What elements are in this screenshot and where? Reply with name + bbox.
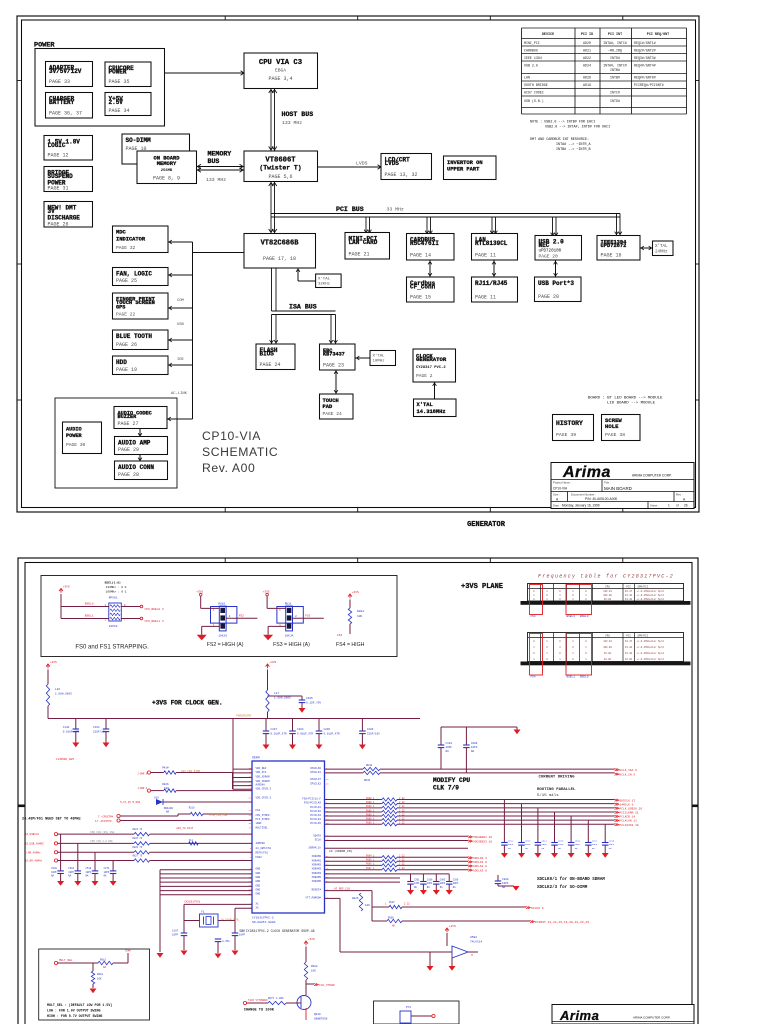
svg-text:FS3: FS3 [305,615,310,618]
svg-text:MDC: MDC [116,230,126,236]
svg-text:5/15 mils: 5/15 mils [537,793,559,798]
svg-text:P890 1: P890 1 [366,809,375,812]
svg-text:+3VS: +3VS [308,938,315,941]
svg-text:PAGE 2: PAGE 2 [416,373,433,379]
svg-text:VT8606T: VT8606T [265,157,296,165]
svg-text:33.40: 33.40 [625,646,633,649]
svg-text:22UF/16V: 22UF/16V [93,730,106,734]
svg-text:C818: C818 [609,840,615,843]
svg-text:10PF: 10PF [575,843,581,846]
svg-text:PCI REQ/GNT: PCI REQ/GNT [647,32,669,37]
svg-text:SO-G8057-9800: SO-G8057-9800 [252,921,276,924]
svg-text:FS4: FS4 [531,676,536,679]
svg-text:SO-DIMM: SO-DIMM [126,137,152,144]
svg-text:PAGE 13, 32: PAGE 13, 32 [385,172,418,178]
svg-text:10K: 10K [357,615,362,618]
svg-text:IC CY28317PVC-2 CLOCK GENERATO: IC CY28317PVC-2 CLOCK GENERATOR SSOP-48 [240,929,315,933]
svg-text:CPU_BSEL0 3: CPU_BSEL0 3 [145,608,164,611]
svg-text:10_NR_48MHz: 10_NR_48MHz [25,860,43,863]
svg-text:GND: GND [256,893,261,896]
svg-text:PAGE 19: PAGE 19 [116,367,137,373]
svg-text:XDCLK2 8: XDCLK2 8 [473,865,487,868]
svg-text:48MPD0: 48MPD0 [256,842,266,845]
svg-text:FS03: FS03 [256,856,263,859]
svg-text:x: x [471,954,473,958]
svg-text:C206: C206 [324,728,331,731]
svg-text:X2: X2 [256,906,260,909]
svg-text:REQ3#/GNT3#: REQ3#/GNT3# [634,56,656,60]
svg-text:+3VS: +3VS [449,925,456,928]
svg-text:FS2 = HIGH (A): FS2 = HIGH (A) [207,642,244,648]
svg-text:R980: R980 [388,917,394,920]
svg-text:Arima: Arima [559,1008,599,1023]
svg-text:PAD: PAD [323,404,333,410]
svg-text:CPU: CPU [605,635,610,638]
svg-text:REQ4#/GNT4#: REQ4#/GNT4# [634,64,656,68]
svg-text:4.7UF: 4.7UF [222,940,230,943]
svg-text:FS0/PCICLK0: FS0/PCICLK0 [304,801,322,805]
svg-text:14.318M_XTAL: 14.318M_XTAL [221,919,240,922]
svg-text:X'TAL: X'TAL [318,277,331,282]
svg-text:BATTERY: BATTERY [49,99,75,106]
svg-text:POWER: POWER [109,69,127,76]
svg-text:14MCLK 6: 14MCLK 6 [620,803,634,806]
svg-text:Rev :: Rev : [676,493,683,497]
svg-text:BSEL0: BSEL0 [580,615,589,618]
svg-text:of: of [676,504,679,508]
svg-text:MINI_PCI: MINI_PCI [524,41,540,45]
svg-text:P897: P897 [389,901,395,904]
svg-text:100MHz : 0 1: 100MHz : 0 1 [106,590,127,593]
svg-text:PAGE 27: PAGE 27 [118,421,139,427]
svg-text:C5#8: C5#8 [125,950,131,953]
svg-text:1.0UH_0805: 1.0UH_0805 [274,697,291,700]
svg-text:1.00K: 1.00K [276,997,284,1000]
svg-text:R5C476II: R5C476II [410,240,439,247]
svg-text:GND: GND [256,868,261,871]
svg-text:T236 VTTPWRGD: T236 VTTPWRGD [248,999,268,1002]
svg-text:PCICLKRM 21: PCICLKRM 21 [620,812,639,815]
svg-text:133 MHz: 133 MHz [282,120,302,126]
svg-text:IEEE 1394: IEEE 1394 [524,56,542,60]
svg-text:2 22: 2 22 [399,863,405,866]
svg-text:AD21: AD21 [583,49,591,53]
svg-text:BSEL1: BSEL1 [85,614,94,617]
svg-text:3V/5V/12V: 3V/5V/12V [49,68,82,75]
svg-text:VDD_XDRAM: VDD_XDRAM [256,776,270,779]
svg-text:PAGE 38: PAGE 38 [605,432,625,438]
svg-text:PAGE 11: PAGE 11 [475,295,496,301]
svg-text:133MHz : 0 0: 133MHz : 0 0 [106,586,127,589]
svg-text:PCICLK1: PCICLK1 [310,806,321,809]
svg-text:33.47: 33.47 [625,640,633,643]
svg-text:DEVICE: DEVICE [542,33,554,37]
svg-text:CHANGE TO 100K: CHANGE TO 100K [244,1009,275,1013]
svg-text:1.0UH_0805: 1.0UH_0805 [55,693,72,696]
svg-text:MULT_SEL: MULT_SEL [59,959,73,962]
svg-text:XDCLK3 8: XDCLK3 8 [473,869,487,872]
svg-text:NA: NA [502,886,506,889]
svg-text:FS4: FS4 [337,634,342,637]
svg-text:INVERTOR ON: INVERTOR ON [447,160,483,166]
svg-text:C817: C817 [592,840,598,843]
svg-text:COM: COM [177,299,185,303]
svg-text:R826 73: R826 73 [133,846,143,849]
svg-text:PCICLK3: PCICLK3 [310,814,321,817]
svg-text:+3VS: +3VS [352,591,359,594]
svg-text:SCHEMATIC: SCHEMATIC [202,445,278,459]
svg-text:SPR/PCI: SPR/PCI [638,635,649,638]
svg-text:2 22: 2 22 [399,822,405,825]
svg-text:GND: GND [256,884,261,887]
svg-text:Monday, January 16, 1999: Monday, January 16, 1999 [562,504,600,508]
svg-text:AD20: AD20 [583,41,591,45]
svg-text:PAGE 16: PAGE 16 [601,253,622,259]
svg-text:PCIRST 11,14,15,16,20,21,23,43: PCIRST 11,14,15,16,20,21,23,43 [535,921,589,924]
svg-text:R41#: R41# [162,767,169,770]
svg-text:+/-0.25%Center Sprd: +/-0.25%Center Sprd [637,658,665,661]
svg-text:PAGE 36, 37: PAGE 36, 37 [49,111,82,117]
svg-text:X'TAL: X'TAL [373,354,386,359]
svg-text:Y1: Y1 [201,911,205,914]
svg-text:10K: 10K [311,970,316,973]
svg-text:PAGE 21: PAGE 21 [349,252,370,258]
svg-text:FS4 = HIGH: FS4 = HIGH [336,642,365,648]
svg-text:SDATA: SDATA [313,834,321,837]
svg-text:INTA# --> ~INTR_A: INTA# --> ~INTR_A [556,142,592,147]
svg-text:XDRAM5: XDRAM5 [312,876,322,879]
svg-text:2 22: 2 22 [399,809,405,812]
svg-text:2 22: 2 22 [404,903,410,906]
svg-text:LOGIC: LOGIC [48,142,66,149]
svg-text:XDCGEN01 10: XDCGEN01 10 [473,836,492,839]
svg-text:PAGE 17, 18: PAGE 17, 18 [263,256,296,262]
svg-text:PCI BUS: PCI BUS [336,206,364,213]
svg-text:C808: C808 [502,878,509,881]
svg-text:PAGE 14: PAGE 14 [410,253,431,259]
svg-text:CLK_VTPWD: CLK_VTPWD [319,984,335,987]
svg-text:+/-0.25%Center Sprd: +/-0.25%Center Sprd [637,652,665,655]
svg-text:C205: C205 [306,697,313,700]
svg-text:P890 1: P890 1 [366,817,375,820]
svg-text:133.33: 133.33 [603,590,612,593]
svg-text:PCICLK2: PCICLK2 [310,810,321,813]
svg-text:P890 1: P890 1 [366,797,375,800]
svg-text:MULTISEL: MULTISEL [256,826,269,829]
svg-text:PAGE 34: PAGE 34 [109,108,130,114]
svg-text:2 22: 2 22 [399,813,405,816]
svg-text:THRU3V5TH: THRU3V5TH [236,715,251,718]
svg-text:2 22: 2 22 [399,855,405,858]
svg-text:2 22: 2 22 [399,805,405,808]
svg-text:P890 1: P890 1 [366,805,375,808]
svg-text:C812: C812 [508,840,514,843]
svg-text:RP501: RP501 [109,596,118,599]
svg-text:133.33: 133.33 [603,640,612,643]
svg-text:VDD_PCI: VDD_PCI [256,771,267,774]
svg-text:P895 1: P895 1 [366,859,375,862]
svg-text:PAGE 28: PAGE 28 [118,472,139,478]
svg-text:133 MHz: 133 MHz [206,177,226,183]
svg-text:RTL8139CL: RTL8139CL [475,240,508,247]
svg-text:MODIFY CPU: MODIFY CPU [433,777,470,784]
svg-text:RU34: RU34 [364,779,371,782]
svg-text:VT82C686B: VT82C686B [261,240,300,248]
svg-text:J-DNR 6: J-DNR 6 [137,787,148,790]
svg-text:PCICLK4: PCICLK4 [310,818,321,821]
svg-text:~RR_IRQ: ~RR_IRQ [608,49,622,53]
svg-text:10PF: 10PF [86,871,92,874]
svg-text:INTA#, INTC#: INTA#, INTC# [603,64,627,68]
svg-text:PAGE 30: PAGE 30 [66,442,86,448]
svg-text:32.00: 32.00 [625,658,633,661]
svg-text:1: 1 [668,504,670,508]
svg-text:98WBT006: 98WBT006 [314,1018,328,1021]
svg-text:C815: C815 [558,840,564,843]
svg-text:+3VS: +3VS [269,661,276,664]
svg-text:PAGE 39: PAGE 39 [556,432,576,438]
svg-text:U59A: U59A [470,936,477,939]
svg-text:PAGE 26: PAGE 26 [48,222,69,228]
svg-text:5,17,25 M_NA#: 5,17,25 M_NA# [120,801,141,804]
svg-text:10PF: 10PF [525,843,531,846]
svg-text:INTB# --> ~INTR_B: INTB# --> ~INTR_B [556,147,591,152]
svg-text:BIOS: BIOS [260,351,275,358]
svg-text:R688: R688 [311,965,318,968]
svg-text:66.80: 66.80 [604,598,612,601]
svg-text:P890 1: P890 1 [366,801,375,804]
svg-text:13 (XDRAM_IN): 13 (XDRAM_IN) [329,849,353,853]
svg-text:24_48M/FS1 NEED SET TO 48MHz: 24_48M/FS1 NEED SET TO 48MHz [22,816,81,821]
svg-text:2 22: 2 22 [399,797,405,800]
svg-text:XDRAM2: XDRAM2 [312,863,322,866]
svg-text:10PF: 10PF [471,746,478,749]
svg-text:C204: C204 [297,728,304,731]
svg-text:+/-0.25%Center Sprd: +/-0.25%Center Sprd [637,594,665,597]
svg-text:CPUCLK7: CPUCLK7 [310,778,321,781]
svg-text:PAGE 5,6: PAGE 5,6 [268,174,292,180]
svg-text:HOST BUS: HOST BUS [282,111,314,118]
svg-text:C164: C164 [93,726,100,729]
svg-text:CPUCLK2: CPUCLK2 [310,782,321,785]
svg-text:PAGE 11: PAGE 11 [475,253,496,259]
svg-text:Sheet :: Sheet : [650,504,659,508]
svg-text:F11: F11 [189,839,194,842]
svg-text:AVDD48: AVDD48 [256,784,266,787]
svg-text:PAGE 26: PAGE 26 [116,342,137,348]
svg-text:L27: L27 [274,692,279,695]
svg-text:PCLK1394 16: PCLK1394 16 [620,824,639,827]
svg-text:PAGE 23: PAGE 23 [323,363,344,369]
svg-text:Arima: Arima [562,464,611,481]
svg-text:10_USB_48MHZ: 10_USB_48MHZ [25,842,44,845]
svg-text:PAGE 33: PAGE 33 [49,79,70,85]
svg-text:X'TAL: X'TAL [655,244,668,249]
svg-text:BSEL1: BSEL1 [567,615,576,618]
svg-text:10PF: 10PF [440,882,446,885]
svg-text:CPU_BSEL1 3: CPU_BSEL1 3 [145,620,164,623]
svg-text:PCI: PCI [626,635,631,638]
svg-text:223_7A P217: 223_7A P217 [176,827,194,830]
svg-text:SUSCLK 17: SUSCLK 17 [620,799,636,802]
svg-text:C200: C200 [453,879,459,882]
svg-text:2 22: 2 22 [399,801,405,804]
svg-text:R827 73: R827 73 [133,854,143,857]
svg-text:PAGE 22: PAGE 22 [116,312,136,318]
svg-text:RU32: RU32 [366,764,373,767]
svg-text:AC-LINK: AC-LINK [171,392,188,396]
svg-text:10PF: 10PF [508,843,514,846]
svg-text:10PF: 10PF [239,934,246,937]
svg-text:PAGE 8, 9: PAGE 8, 9 [153,176,180,182]
svg-text:100.00: 100.00 [603,646,612,649]
svg-text:J-DNR 5: J-DNR 5 [137,773,148,776]
svg-text:+3VS: +3VS [50,661,57,664]
svg-text:0.01UF_X7R: 0.01UF_X7R [63,731,80,734]
svg-text:C548: C548 [51,867,57,870]
svg-text:FAN, LOGIC: FAN, LOGIC [116,271,152,278]
svg-text:100.00: 100.00 [603,594,612,597]
svg-text:R884: R884 [357,610,364,613]
svg-text:XDRAM3: XDRAM3 [312,868,322,871]
svg-text:PCI_STOP#: PCI_STOP# [256,818,270,821]
svg-text:SCLK: SCLK [315,839,322,842]
svg-text:10K: 10K [97,978,102,981]
svg-text:NEC: NEC [539,242,550,249]
svg-text:MEMORY: MEMORY [208,151,232,158]
svg-text:INDICATOR: INDICATOR [116,237,146,243]
svg-text:AD22: AD22 [583,56,591,60]
svg-text:74LVC14: 74LVC14 [470,941,482,944]
svg-text:PAGE 3,4: PAGE 3,4 [268,76,292,82]
svg-text:NA: NA [103,966,107,969]
svg-text:XDRAM0: XDRAM0 [312,855,322,858]
svg-text:HOLE: HOLE [605,423,619,430]
svg-text:ISA BUS: ISA BUS [289,304,317,311]
svg-text:33.47: 33.47 [625,590,633,593]
svg-text:PT2: PT2 [406,1006,411,1009]
svg-text:0.01UF_X7R: 0.01UF_X7R [271,733,288,736]
svg-text:P897 1: P897 1 [366,867,375,870]
svg-text:LOW : FOR 1.0V OUTPUT SWING: LOW : FOR 1.0V OUTPUT SWING [47,1009,100,1013]
svg-text:HISTORY: HISTORY [556,420,583,427]
svg-text:10PF: 10PF [609,843,615,846]
svg-text:HCLK_VGA 9: HCLK_VGA 9 [620,769,638,772]
svg-text:2.5V: 2.5V [109,99,124,106]
svg-text:PAGE 24: PAGE 24 [260,362,281,368]
svg-text:2 22: 2 22 [399,817,405,820]
svg-text:10PF: 10PF [68,871,74,874]
svg-text:R218: R218 [189,807,195,810]
svg-text:PCI INT: PCI INT [608,33,622,37]
svg-text:R615: R615 [100,959,107,962]
svg-text:10KJA: 10KJA [285,634,294,637]
svg-text:2 22: 2 22 [399,867,405,870]
svg-text:R918: R918 [97,973,104,976]
svg-text:GENERATOR: GENERATOR [416,356,447,363]
svg-text:33.40: 33.40 [625,652,633,655]
svg-text:2 22: 2 22 [399,859,405,862]
svg-text:+3VS PLANE: +3VS PLANE [461,583,503,591]
svg-text:REQ1#/GNT1#: REQ1#/GNT1# [634,41,656,45]
svg-text:FS3 = HIGH (A): FS3 = HIGH (A) [273,642,310,648]
svg-text:P896 1: P896 1 [366,863,375,866]
svg-text:HIGH : FOR 0.7V OUTPUT SWING: HIGH : FOR 0.7V OUTPUT SWING [47,1014,102,1018]
svg-text:BUZZER: BUZZER [118,414,138,420]
svg-text:INTB#: INTB# [610,68,620,72]
svg-text:10K: 10K [365,904,370,907]
svg-text:XDRAM6: XDRAM6 [312,880,322,883]
svg-text:1A_USBCLK: 1A_USBCLK [25,833,39,836]
svg-text:GND: GND [256,889,261,892]
svg-text:+/-0.25%Center Sprd: +/-0.25%Center Sprd [637,640,665,643]
svg-text:P/N: 40-A05L00-A000: P/N: 40-A05L00-A000 [585,497,617,501]
svg-text:Title :: Title : [604,481,611,485]
svg-text:NOTE : USB2.0 --> INTB# FOR EH: NOTE : USB2.0 --> INTB# FOR EHCI [530,120,595,125]
svg-text:C806: C806 [471,742,478,745]
svg-text:VDD_CPU3.3: VDD_CPU3.3 [256,797,272,800]
svg-text:MAIN BOARD: MAIN BOARD [604,486,632,491]
svg-text:10PF: 10PF [104,871,110,874]
svg-text:256MB: 256MB [161,169,173,173]
svg-text:VTT_PWRGD#: VTT_PWRGD# [305,896,321,899]
svg-text:PAGE 20: PAGE 20 [539,254,559,260]
svg-text:10PF: 10PF [427,882,433,885]
svg-text:USB 2.0: USB 2.0 [524,64,538,68]
svg-text:+3VS FOR CLOCK GEN.: +3VS FOR CLOCK GEN. [152,700,223,707]
svg-text:C207: C207 [271,728,278,731]
svg-text:PCICLK5: PCICLK5 [310,822,321,825]
svg-text:ARIMA COMPUTER CORP.: ARIMA COMPUTER CORP. [633,1016,670,1020]
svg-text:CLK 7/9: CLK 7/9 [433,785,459,792]
svg-text:USB Port*3: USB Port*3 [538,280,574,287]
svg-text:FS4: FS4 [531,615,536,618]
svg-text:SCLK0 6: SCLK0 6 [531,907,544,910]
svg-text:BOARD : BT LED BOARD --> MODU: BOARD : BT LED BOARD --> MODULE [588,396,663,401]
svg-text:C518: C518 [86,867,92,870]
svg-text:24_48M/FS1: 24_48M/FS1 [256,846,272,850]
svg-text:AD26: AD26 [583,76,591,80]
svg-text:PAGE 25: PAGE 25 [116,278,137,284]
svg-text:(Twister T): (Twister T) [259,165,301,172]
svg-text:33.40: 33.40 [625,594,633,597]
svg-text:+/-0.25%Center Sprd: +/-0.25%Center Sprd [637,646,665,649]
svg-text:10KX2: 10KX2 [109,625,118,628]
svg-text:AD24: AD24 [583,64,591,68]
svg-text:AUDIO: AUDIO [66,427,82,433]
svg-text:R673: R673 [268,997,275,1000]
svg-text:FS4: FS4 [256,809,261,812]
svg-text:D16: D16 [154,797,159,800]
svg-text:POWER: POWER [66,433,82,439]
svg-text:PCLKLAN 11: PCLKLAN 11 [620,820,638,823]
svg-text:Document Number :: Document Number : [571,493,596,497]
svg-text:GND: GND [256,872,261,875]
svg-text:433_CPU_STOP: 433_CPU_STOP [181,770,201,773]
svg-text:CY28317PVC-2: CY28317PVC-2 [252,917,274,920]
svg-text:uPD720100: uPD720100 [539,250,562,254]
svg-text:PAGE 24: PAGE 24 [323,411,343,417]
svg-text:P890 1: P890 1 [366,813,375,816]
svg-text:XDCLK0 4: XDCLK0 4 [473,857,487,860]
svg-text:BLUE TOOTH: BLUE TOOTH [116,333,152,340]
svg-text:7 ~CPUSTP#: 7 ~CPUSTP# [98,816,114,819]
svg-text:XDRAM4: XDRAM4 [312,872,322,875]
svg-text:C813: C813 [525,840,531,843]
svg-text:CPU_STOP#: CPU_STOP# [256,814,270,817]
svg-text:C816: C816 [575,840,581,843]
svg-text:XDCGEN23 10: XDCGEN23 10 [473,840,492,843]
